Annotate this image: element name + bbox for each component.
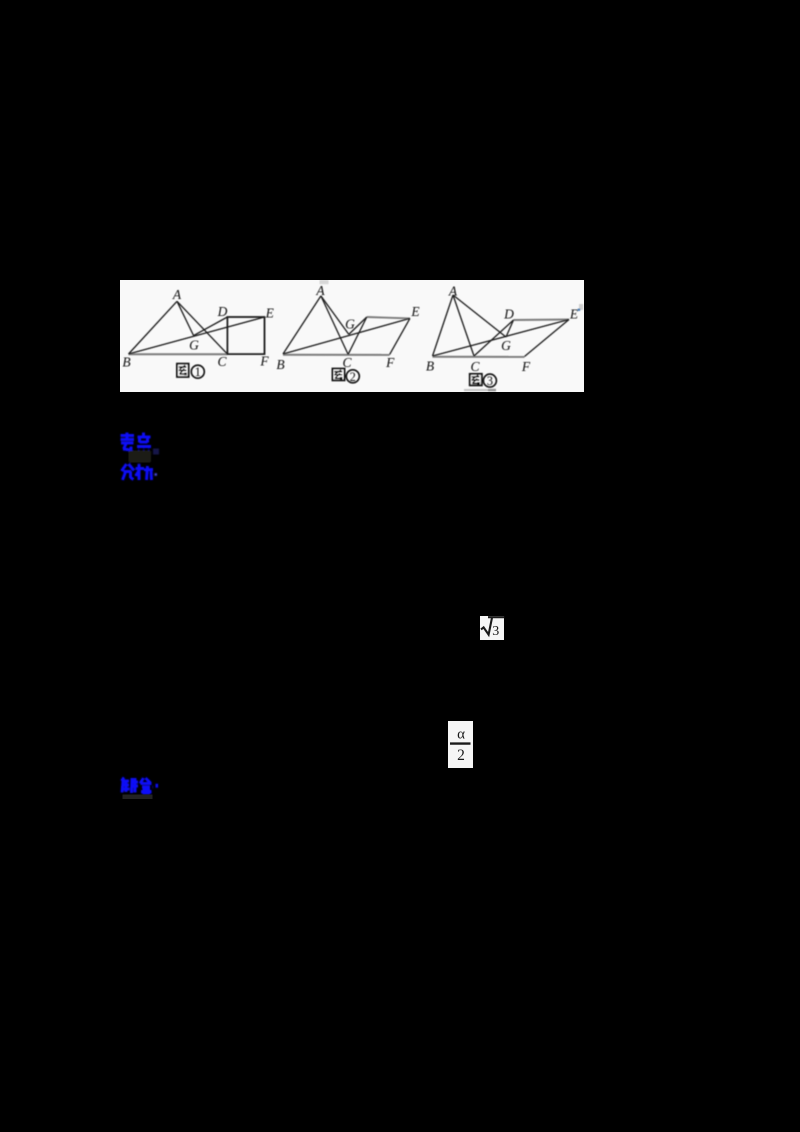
wire B-F bottom gray <box>433 356 525 358</box>
svg-text:E: E <box>569 307 579 322</box>
faint gray underline <box>123 795 153 800</box>
wire B-E <box>283 318 410 354</box>
wire D-C <box>474 320 514 356</box>
wire B-C bottom gray <box>129 353 228 355</box>
scanned figure strip <box>120 280 584 392</box>
svg-text:B: B <box>276 357 284 372</box>
svg-text:2: 2 <box>350 370 356 384</box>
svg-text:3: 3 <box>487 374 493 388</box>
svg-text:E: E <box>410 304 420 319</box>
node labels fig3 <box>426 284 579 374</box>
svg-text:A: A <box>172 287 182 302</box>
wire C-D' <box>348 317 367 354</box>
dark navy colon block <box>153 449 159 455</box>
blue annotation labels <box>110 425 190 495</box>
wire G-D <box>194 317 228 336</box>
wire B-E <box>129 317 265 354</box>
wire G-D' <box>349 317 367 334</box>
svg-text:G: G <box>345 317 355 332</box>
wire A-B <box>433 295 454 356</box>
scan bar bottom fig3 <box>464 389 488 391</box>
svg-text:A: A <box>315 283 325 298</box>
label jieda (blue) <box>112 770 172 806</box>
svg-text:1: 1 <box>195 365 201 379</box>
svg-text:α: α <box>457 727 465 743</box>
wire A-C <box>321 296 348 355</box>
wire D'-E top gray <box>367 317 410 318</box>
svg-text:G: G <box>501 338 511 353</box>
svg-text:2: 2 <box>457 747 465 764</box>
wire A-C <box>453 295 474 356</box>
svg-text:B: B <box>122 355 130 370</box>
node labels fig1 <box>122 287 274 370</box>
caption fig3 <box>470 374 497 388</box>
wire A-B <box>129 301 178 354</box>
svg-text:F: F <box>259 353 269 368</box>
svg-text:D: D <box>503 307 514 322</box>
svg-text:3: 3 <box>492 624 499 639</box>
wire A-G <box>321 296 349 335</box>
wire A-G <box>453 295 506 337</box>
alpha/2 fraction white box <box>448 721 473 768</box>
wire E-F <box>525 320 570 357</box>
svg-text:A: A <box>448 284 458 299</box>
svg-text:F: F <box>385 355 395 370</box>
svg-text:E: E <box>265 306 275 321</box>
wire D-E top gray <box>514 319 570 322</box>
svg-text:C: C <box>470 359 480 374</box>
scan smudge above A fig2 <box>320 280 329 284</box>
caption fig2 <box>333 369 360 384</box>
caption fig1 <box>177 364 204 380</box>
svg-text:B: B <box>426 359 434 374</box>
scan smudge near E fig3 <box>579 304 583 310</box>
svg-text:F: F <box>521 359 531 374</box>
wire A-G <box>177 301 194 335</box>
wire B-E <box>433 320 570 357</box>
wire A-C <box>177 301 227 354</box>
svg-text:C: C <box>217 354 227 369</box>
wire E-F <box>390 318 410 354</box>
wire D-G <box>506 320 514 337</box>
svg-text:D: D <box>217 304 228 319</box>
square DCFE <box>227 317 264 354</box>
wire B-F bottom gray <box>283 354 390 356</box>
svg-text:G: G <box>189 337 199 352</box>
wire A-B <box>283 296 321 354</box>
faint dark blob row <box>129 451 152 463</box>
label kaodian (blue) <box>121 433 152 451</box>
sqrt(3) white box <box>480 616 504 640</box>
label fenxi (blue) <box>122 464 158 480</box>
node labels fig2 <box>276 283 420 372</box>
